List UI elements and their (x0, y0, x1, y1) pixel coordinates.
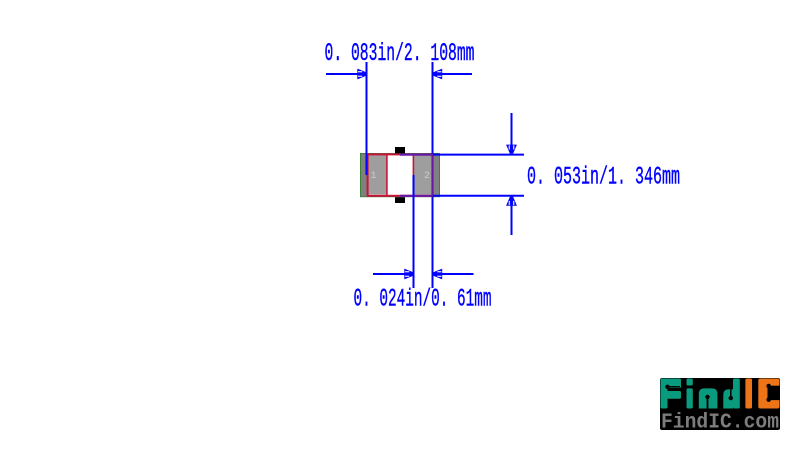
logo letter C dot top (766, 384, 771, 389)
logo letter n (699, 388, 718, 408)
logo letter d bowl (723, 389, 733, 408)
extension line right upper (x=432.5) (432, 62, 434, 154)
pin mark top (black) (395, 147, 405, 153)
logo letter d dot trace (730, 384, 732, 398)
logo letter C opening notch (768, 386, 780, 400)
height extension line bottom (y=195.8) (433, 195, 524, 197)
logo letter i dot (687, 379, 693, 386)
logo letter F dot decoration (665, 385, 669, 389)
height dimension arrowhead up (506, 197, 517, 206)
logo letter F mid bar (661, 391, 682, 399)
component outline (red) (368, 154, 433, 195)
bottom dimension arrowhead right (points left) (433, 269, 442, 280)
logo letter n dot trace (707, 397, 709, 409)
logo letter C (758, 379, 779, 409)
pad 2 (414, 155, 433, 195)
pad 2 inner edge red line (412, 154, 414, 195)
svg-text:1: 1 (371, 171, 377, 182)
top dimension arrow line right (441, 73, 472, 75)
bottom dimension arrow line left (373, 273, 405, 275)
logo letter i body (687, 388, 693, 408)
extension line left (x=366.5) (366, 62, 368, 175)
height extension line top purple overlap segment (400, 154, 433, 156)
svg-text:FindIC.com: FindIC.com (661, 412, 779, 435)
height dimension vertical line top segment (511, 113, 513, 146)
pad width extension line (x=413.5) (413, 175, 415, 288)
top dimension arrowhead right (points left) (433, 69, 442, 80)
height extension line top (y=154.6) (433, 154, 524, 156)
dimension text top (325, 39, 475, 68)
svg-text:2: 2 (424, 171, 430, 182)
logo letter n dot decoration (705, 395, 709, 399)
height dimension arrowhead down (506, 145, 517, 154)
pad 1 inner edge red line (386, 154, 388, 195)
extension line right lower (x=432.5) (432, 196, 434, 288)
FindIC logo background (660, 378, 780, 430)
logo letter F dot trace (668, 386, 681, 388)
pad 1 (368, 155, 387, 195)
logo letter F stem (661, 379, 668, 409)
dimension text bottom (354, 285, 492, 314)
bottom dimension arrow line right (441, 273, 474, 275)
component body (gray with green outline) (361, 154, 440, 197)
dimension text right (527, 163, 680, 192)
bottom dimension arrowhead left (points right) (404, 269, 413, 280)
extension line right purple overlap segment (431, 154, 433, 196)
logo letter F top bar (661, 379, 682, 389)
pin mark bottom (black) (395, 197, 405, 203)
component inner white fill (368, 154, 433, 195)
logo letter C dot bottom (766, 397, 771, 402)
top dimension arrow line left (326, 73, 358, 75)
logo letter d stem (733, 379, 740, 409)
logo letter I (745, 379, 752, 409)
top dimension arrowhead left (points right) (357, 69, 366, 80)
logo letter d dot decoration (729, 396, 733, 400)
height dimension vertical line bottom segment (511, 205, 513, 236)
height extension line bottom purple overlap segment (400, 195, 433, 197)
